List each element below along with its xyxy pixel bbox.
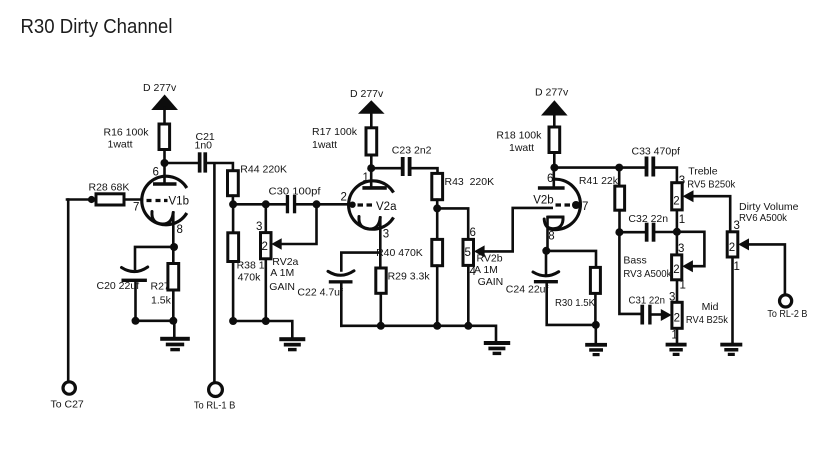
wire RV6 wiper to To RL-2 B xyxy=(749,244,785,295)
cathode of V2a xyxy=(359,217,380,230)
terminal To RL-2 B xyxy=(780,295,792,307)
svg-text:A 1M: A 1M xyxy=(474,264,498,276)
node grid input junction xyxy=(88,196,95,203)
wire C23 to R43 xyxy=(412,168,438,173)
svg-text:Mid: Mid xyxy=(702,301,719,313)
wire plate node V2b to C33 xyxy=(554,166,644,169)
node grid V2b at envelope xyxy=(572,201,580,209)
node R38 ground bus xyxy=(229,317,237,325)
svg-text:2: 2 xyxy=(262,241,268,253)
wire grid V1b from R28 xyxy=(67,198,142,201)
svg-text:C22 4.7uf: C22 4.7uf xyxy=(297,287,343,299)
triode V2a envelope xyxy=(349,181,394,229)
wire node to RV2b top xyxy=(437,208,468,239)
node below R43 xyxy=(433,204,441,212)
svg-text:470k: 470k xyxy=(238,272,262,284)
node R27 ground bus xyxy=(169,317,177,325)
svg-text:R17 100k: R17 100k xyxy=(312,126,358,138)
wire ground bus stage 2 input xyxy=(233,321,292,337)
svg-text:C20 22uf: C20 22uf xyxy=(97,280,140,292)
svg-text:1watt: 1watt xyxy=(312,139,337,151)
resistor R38 xyxy=(228,233,239,262)
svg-text:C30 100pf: C30 100pf xyxy=(269,186,321,198)
svg-text:R27: R27 xyxy=(151,281,170,293)
wire node to plate xyxy=(370,168,373,186)
wire C24 to ground bus xyxy=(547,284,596,325)
svg-text:1: 1 xyxy=(734,261,740,273)
ground mid pot xyxy=(666,343,687,347)
resistor R29 xyxy=(376,268,386,293)
svg-text:To C27: To C27 xyxy=(51,399,84,411)
wire plate node to C21 xyxy=(165,162,198,165)
svg-text:C31 22n: C31 22n xyxy=(629,294,666,306)
terminal To C27 xyxy=(63,382,75,394)
svg-text:2: 2 xyxy=(674,313,680,325)
resistor R17 xyxy=(366,128,377,155)
resistor R18 xyxy=(549,127,560,153)
wire treble node to bass pin 3 xyxy=(676,232,679,255)
capacitor C22 curved plate xyxy=(328,271,354,275)
wire R29 to ground bus xyxy=(379,293,382,326)
wire node to R41 xyxy=(618,168,621,187)
svg-text:C32 22n: C32 22n xyxy=(628,213,668,225)
capacitor C22 straight plate xyxy=(329,280,353,283)
wire R43 to node xyxy=(436,200,439,209)
svg-text:3: 3 xyxy=(256,221,262,233)
svg-text:R41 22k: R41 22k xyxy=(579,175,619,187)
node plate V1b junction xyxy=(161,159,169,167)
wire cathode node to C24 xyxy=(545,251,548,274)
wire arrow to R17 xyxy=(370,114,373,128)
wire R17 to plate node xyxy=(370,155,373,168)
wiper arrow RV6 xyxy=(738,238,749,250)
supply arrow (stage 2) xyxy=(358,100,385,114)
supply arrow (stage 3) xyxy=(541,100,568,115)
svg-text:6: 6 xyxy=(470,227,476,239)
capacitor C32 xyxy=(645,223,649,242)
wiper arrow RV2b xyxy=(474,245,485,257)
cathode of V1b xyxy=(152,212,173,225)
ground stage 2 xyxy=(484,341,510,345)
wire RV4 to ground xyxy=(676,328,679,343)
capacitor C20 curved plate xyxy=(122,267,148,272)
wire R41 bottom node to C32 xyxy=(619,231,644,234)
svg-text:C23 2n2: C23 2n2 xyxy=(392,145,432,157)
resistor R40 xyxy=(432,239,443,265)
wire C33 to treble pot xyxy=(655,168,677,183)
svg-text:1n0: 1n0 xyxy=(195,140,213,152)
svg-text:A 1M: A 1M xyxy=(270,267,294,279)
svg-text:1.5k: 1.5k xyxy=(151,295,172,307)
wire C32 to node xyxy=(655,231,677,234)
wire bass pin1 to mid pin3 xyxy=(676,280,679,303)
capacitor C23 xyxy=(401,157,405,176)
triode V1b envelope xyxy=(142,176,187,225)
grid dashes V2a xyxy=(358,203,373,206)
wire arrow to R18 xyxy=(553,114,556,128)
wire R27 to ground bus xyxy=(172,290,175,321)
potentiometer RV2a xyxy=(261,233,272,259)
wire R38 to ground bus xyxy=(232,262,235,322)
wire down to To RL-1 B xyxy=(213,164,216,383)
wire RV5 bottom to node xyxy=(676,210,679,232)
svg-text:R16 100k: R16 100k xyxy=(104,127,150,139)
wire RV5 wiper to RV6 top xyxy=(694,196,731,232)
resistor R27 xyxy=(168,264,179,291)
node grid V2a xyxy=(313,200,321,208)
wire R43 node down to R40 xyxy=(436,208,439,239)
svg-text:R43 220K: R43 220K xyxy=(445,176,495,188)
wire R41 to node xyxy=(618,210,621,232)
wire R30 to ground bus xyxy=(594,293,597,325)
capacitor C24 curved plate xyxy=(533,272,559,276)
wire cathode to C20 xyxy=(135,247,173,269)
svg-text:1watt: 1watt xyxy=(509,142,534,154)
ground stage 1 xyxy=(173,321,176,337)
wire arrow to R16 xyxy=(163,108,166,124)
svg-text:R44 220K: R44 220K xyxy=(240,163,287,175)
potentiometer RV2b xyxy=(463,239,474,265)
svg-text:8: 8 xyxy=(548,230,554,242)
svg-text:V2b: V2b xyxy=(533,195,553,207)
wiper arrow RV5 xyxy=(683,190,694,202)
wire R44 to node xyxy=(232,196,235,205)
potentiometer RV6 Dirty Volume xyxy=(727,232,738,257)
wire C21 to R44 corner xyxy=(207,163,233,171)
resistor R44 xyxy=(228,171,239,196)
svg-text:1: 1 xyxy=(680,280,686,292)
svg-text:To RL-1 B: To RL-1 B xyxy=(194,399,236,411)
svg-text:Bass: Bass xyxy=(623,255,646,267)
ground RV6 xyxy=(720,343,742,347)
svg-text:2: 2 xyxy=(673,196,679,208)
svg-text:1watt: 1watt xyxy=(108,139,133,151)
svg-text:RV4 B25k: RV4 B25k xyxy=(686,314,729,326)
capacitor C33 xyxy=(645,157,649,177)
svg-text:1: 1 xyxy=(679,214,685,226)
svg-text:3: 3 xyxy=(383,229,389,241)
svg-text:C24 22uf: C24 22uf xyxy=(506,283,549,295)
wire C20 to ground bus xyxy=(134,282,137,321)
svg-text:R18 100k: R18 100k xyxy=(496,130,542,142)
potentiometer RV5 Treble xyxy=(672,183,683,210)
wire down to To C27 xyxy=(67,200,70,382)
svg-text:RV2a: RV2a xyxy=(272,256,298,268)
node R30 ground bus xyxy=(592,321,600,329)
node R41 bottom xyxy=(615,228,623,236)
wire node to node RV2a top xyxy=(233,203,266,206)
svg-text:RV5 B250k: RV5 B250k xyxy=(687,178,736,190)
node grid entry V2a xyxy=(349,202,355,208)
resistor R43 xyxy=(432,173,443,199)
node plate V2b junction xyxy=(550,164,558,172)
plate of V1b xyxy=(153,182,177,186)
wire plate node to C23 xyxy=(371,167,401,170)
wire node to C30 xyxy=(266,203,286,206)
cathode of V2b xyxy=(544,217,563,229)
svg-text:2: 2 xyxy=(729,242,735,254)
wire bass wiper loop xyxy=(677,232,705,266)
wire cathode lead V2a to R29 xyxy=(379,218,382,269)
node plate V2a junction xyxy=(367,164,375,172)
plate of V2b xyxy=(538,186,565,190)
svg-text:V2a: V2a xyxy=(376,201,397,213)
resistor R41 xyxy=(615,186,625,210)
node cathode V1b xyxy=(170,243,178,251)
wire node to plate xyxy=(163,163,166,183)
node cathode V2b xyxy=(542,247,550,255)
plate of V2a xyxy=(362,186,386,190)
svg-text:R28 68K: R28 68K xyxy=(89,182,130,194)
capacitor C31 xyxy=(640,305,644,325)
node C20 ground bus xyxy=(132,317,140,325)
node RV2b ground bus xyxy=(464,322,472,330)
wire node down to RV2a wiper xyxy=(281,204,316,244)
wire cathode lead V1b xyxy=(172,213,175,248)
node R29 ground bus xyxy=(377,322,385,330)
node below R44 xyxy=(229,200,237,208)
svg-text:5: 5 xyxy=(465,247,471,259)
potentiometer RV4 Mid xyxy=(672,302,682,328)
resistor R16 xyxy=(159,124,170,150)
wire RV2b bottom to ground bus xyxy=(467,265,470,325)
svg-text:To RL-2 B: To RL-2 B xyxy=(767,308,807,320)
resistor R28 xyxy=(96,194,124,205)
triode V2b envelope xyxy=(549,179,581,229)
wire ground bus stage 1 xyxy=(136,319,175,322)
supply arrow (stage 1) xyxy=(151,95,178,111)
node treble bottom / C32 xyxy=(673,228,681,236)
node RV2a ground bus xyxy=(262,317,270,325)
svg-text:GAIN: GAIN xyxy=(269,281,295,293)
svg-text:RV3 A500k: RV3 A500k xyxy=(623,268,672,280)
wire RV6 bottom to ground xyxy=(731,257,734,343)
svg-text:R30 Dirty Channel: R30 Dirty Channel xyxy=(21,15,173,38)
ground stage 3 xyxy=(594,325,597,343)
wire node down tone bus xyxy=(619,232,641,314)
svg-text:R30 1.5K: R30 1.5K xyxy=(555,297,595,309)
wire cathode to C22 xyxy=(341,253,380,271)
svg-text:3: 3 xyxy=(678,243,684,255)
ground stage 2 input xyxy=(279,337,305,341)
wire node to plate xyxy=(552,168,555,187)
wire cathode to R30 xyxy=(546,251,596,268)
wire R40 to ground bus xyxy=(436,266,439,326)
node above RV2a xyxy=(262,200,270,208)
grid dashes V2b xyxy=(556,203,571,206)
capacitor C24 straight plate xyxy=(534,280,558,283)
wire R16 to plate node xyxy=(163,150,166,164)
grid dashes V1b xyxy=(147,199,168,202)
wiper arrow RV3 xyxy=(682,260,693,272)
wire RV2a bottom to ground bus xyxy=(264,259,267,321)
wiper arrow RV2a xyxy=(271,238,281,250)
capacitor C30 xyxy=(286,195,289,213)
svg-text:8: 8 xyxy=(177,224,183,236)
wire ground bus stage 2 xyxy=(341,326,496,341)
terminal To RL-1 B xyxy=(209,383,223,397)
svg-text:R40 470K: R40 470K xyxy=(376,247,423,259)
svg-text:GAIN: GAIN xyxy=(478,276,504,288)
svg-text:D 277v: D 277v xyxy=(350,88,384,100)
svg-text:7: 7 xyxy=(133,202,139,214)
svg-text:Treble: Treble xyxy=(688,166,718,178)
svg-text:RV2b: RV2b xyxy=(477,252,503,264)
capacitor C20 straight plate xyxy=(122,279,147,282)
svg-text:6: 6 xyxy=(547,173,553,185)
wire C22 to ground bus xyxy=(340,284,343,326)
svg-text:R38 1: R38 1 xyxy=(237,260,265,272)
svg-text:RV6 A500k: RV6 A500k xyxy=(739,212,788,224)
svg-text:R29 3.3k: R29 3.3k xyxy=(388,270,431,282)
wire C31 to mid wiper xyxy=(652,313,661,316)
svg-text:7: 7 xyxy=(582,201,588,213)
svg-text:2: 2 xyxy=(673,264,679,276)
potentiometer RV3 Bass xyxy=(672,255,682,280)
node R40 ground bus xyxy=(433,322,441,330)
wire C30 to grid V2a xyxy=(296,203,351,206)
wire R18 to plate node xyxy=(553,153,556,168)
svg-text:D 277v: D 277v xyxy=(143,82,177,94)
wire cathode node to R27 xyxy=(172,247,175,264)
node R41 top xyxy=(615,164,623,172)
svg-text:2: 2 xyxy=(341,192,347,204)
wire R44 node down to R38 xyxy=(232,204,235,233)
wire RV2b wiper to V2b grid xyxy=(485,208,552,252)
svg-text:D 277v: D 277v xyxy=(535,86,569,98)
wire cathode lead V2b xyxy=(546,217,549,251)
svg-text:V1b: V1b xyxy=(169,196,189,208)
resistor R30 xyxy=(590,267,600,293)
capacitor C21 xyxy=(198,152,202,172)
wiper arrow RV4 (points right) xyxy=(661,309,672,321)
wire node to RV2a top xyxy=(264,204,267,232)
svg-text:3: 3 xyxy=(734,220,740,232)
svg-text:C33 470pf: C33 470pf xyxy=(632,146,681,158)
